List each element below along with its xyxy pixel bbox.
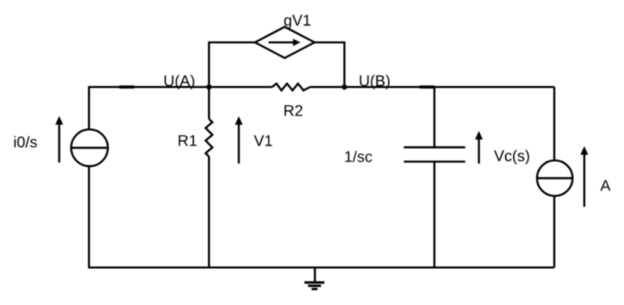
- dependent current source gV1: [255, 27, 315, 58]
- wire: [344, 86, 554, 88]
- current arrow for i0/s: [55, 116, 63, 163]
- label gV1: [284, 15, 310, 29]
- wire: [420, 85, 435, 88]
- capacitor C1 1/sc: [404, 147, 465, 161]
- label Vc(s): [494, 150, 529, 164]
- resistor R1: [206, 119, 213, 157]
- label i0/s: [14, 136, 37, 147]
- wire: [119, 85, 134, 88]
- wire: [315, 42, 345, 87]
- voltage arrow V1: [235, 116, 243, 163]
- wire: [88, 266, 554, 268]
- current source I1 i0/s: [71, 129, 108, 166]
- ground: [304, 268, 324, 290]
- label V1: [254, 135, 272, 146]
- wire: [553, 87, 555, 161]
- node U(A): [206, 84, 211, 89]
- wire: [433, 162, 435, 268]
- wire: [208, 157, 210, 268]
- wire: [209, 42, 255, 87]
- label A: [600, 180, 610, 191]
- voltage arrow Vc(s): [475, 131, 483, 164]
- wire: [88, 86, 209, 88]
- label U(A): [165, 75, 195, 89]
- wire: [208, 87, 210, 119]
- label R1: [179, 135, 197, 146]
- node U(B): [342, 84, 347, 89]
- wire: [209, 86, 272, 88]
- label R2: [285, 105, 303, 116]
- wire: [553, 196, 555, 268]
- label 1/sc: [345, 151, 372, 162]
- current source I2 A: [537, 160, 573, 196]
- current arrow for A: [580, 146, 588, 207]
- wire: [433, 87, 435, 147]
- wire: [88, 166, 90, 267]
- wire: [310, 86, 344, 88]
- label U(B): [360, 75, 390, 89]
- resistor R2: [272, 84, 310, 91]
- wire: [88, 87, 90, 129]
